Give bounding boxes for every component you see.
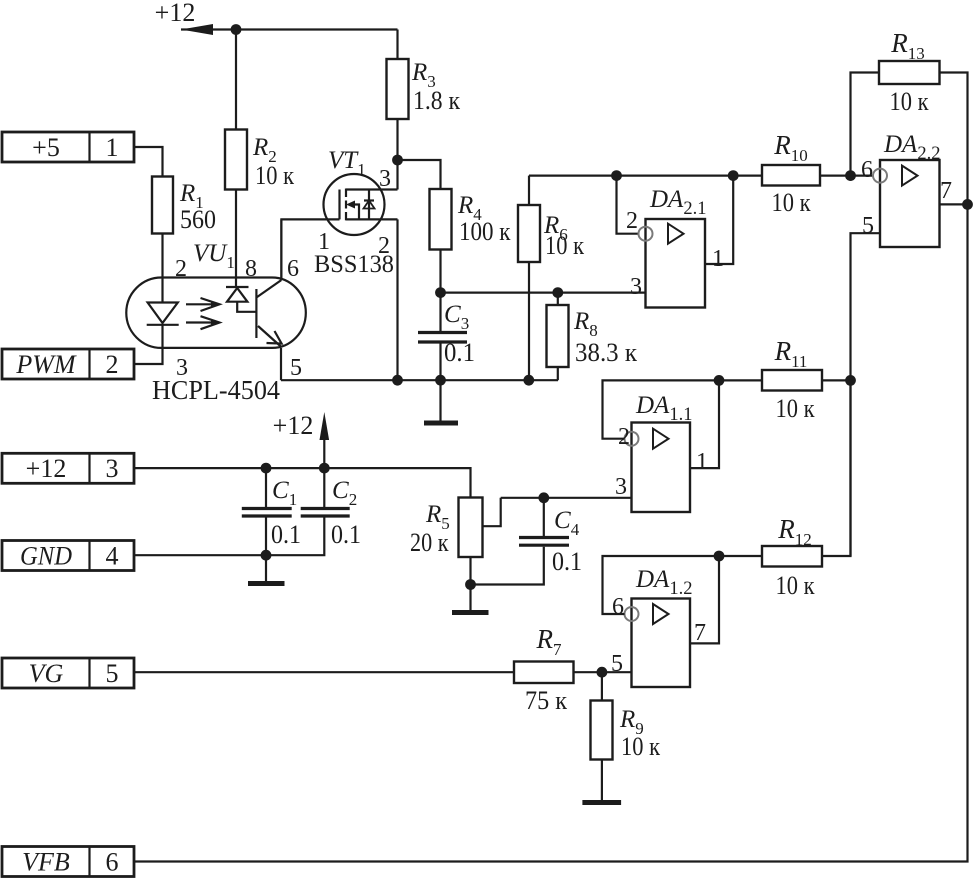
power +12 top arrow: [155, 0, 398, 35]
wire R4 to node: [439, 250, 441, 293]
capacitor C2: [266, 468, 361, 555]
svg-text:75 к: 75 к: [525, 686, 567, 715]
svg-text:2: 2: [626, 208, 638, 234]
svg-text:VG: VG: [29, 659, 64, 688]
node DA1.2 loop/R12: [714, 551, 725, 562]
resistor R2: [225, 130, 247, 190]
ground symbol under C3: [424, 380, 458, 423]
ground rail under C3: [281, 379, 558, 381]
wire R1 to opto pin 2: [161, 234, 163, 278]
svg-text:20 к: 20 к: [410, 528, 449, 557]
resistor R11: [762, 336, 851, 423]
op-amp DA2.2: [861, 131, 952, 247]
connector box +5 / 1: [2, 132, 134, 162]
light arrow 2: [186, 316, 220, 329]
svg-text:6: 6: [287, 256, 299, 282]
svg-text:6: 6: [106, 848, 119, 877]
svg-text:3: 3: [615, 474, 627, 500]
svg-text:38.3 к: 38.3 к: [575, 338, 637, 367]
wire DA2.2 pin7 to right bus: [940, 203, 968, 205]
svg-text:10 к: 10 к: [890, 87, 929, 116]
resistor R5 with tap: [410, 498, 501, 585]
node R4/C3/pin3: [435, 287, 446, 298]
op-amp DA2.1: [626, 186, 724, 308]
svg-text:1: 1: [696, 449, 708, 475]
svg-text:560: 560: [180, 205, 216, 234]
DA1.2 pin5 wire: [574, 671, 632, 673]
connector box GND / 4: [2, 541, 134, 571]
wire PWM box to opto pin 3: [134, 348, 163, 364]
svg-text:10 к: 10 к: [772, 188, 811, 217]
wire R2 to opto pin 8: [235, 190, 237, 278]
wire R6 top to DA2.1 input rail: [529, 175, 762, 177]
node R5/C4 gnd: [465, 579, 476, 590]
connector box +12 / 3: [2, 453, 134, 483]
resistor R12: [719, 380, 851, 600]
svg-text:5: 5: [290, 355, 302, 381]
resistor R13 feedback: [851, 28, 968, 204]
wire +12 down to R3: [396, 30, 398, 60]
resistor R7: [134, 624, 574, 715]
svg-text:4: 4: [106, 542, 119, 571]
svg-text:GND: GND: [20, 542, 72, 571]
light arrow 1: [186, 298, 220, 311]
resistor R1: [152, 177, 173, 234]
svg-text:1: 1: [712, 246, 724, 272]
capacitor C3: [418, 293, 475, 381]
optocoupler VU1 HCPL-4504: [126, 240, 306, 405]
wire R3 to node: [396, 119, 398, 190]
op-amp DA1.2: [611, 566, 706, 687]
svg-text:+12: +12: [273, 411, 314, 440]
svg-text:+5: +5: [32, 133, 60, 162]
connector box VG / 5: [2, 658, 134, 688]
svg-text:2: 2: [175, 256, 187, 282]
svg-text:3: 3: [106, 454, 119, 483]
svg-text:5: 5: [106, 659, 119, 688]
resistor R4: [430, 189, 452, 250]
svg-text:100 к: 100 к: [459, 217, 511, 246]
ground symbol under C1: [248, 555, 285, 583]
svg-text:10 к: 10 к: [621, 732, 660, 761]
wire +5 box to R1: [134, 147, 163, 177]
svg-text:8: 8: [245, 256, 257, 282]
node R11 right: [845, 375, 856, 386]
svg-text:3: 3: [379, 166, 391, 192]
svg-text:0.1: 0.1: [331, 520, 361, 549]
node R10/R13/pin6: [845, 170, 856, 181]
wire node to R4: [398, 160, 441, 189]
node R3/VT1 drain/R4: [392, 155, 403, 166]
wire +12 to R2: [235, 30, 237, 130]
svg-text:VFB: VFB: [22, 848, 70, 877]
svg-text:10 к: 10 к: [255, 161, 294, 190]
DA1.2 pin6 loop: [603, 556, 720, 614]
node R7/R9: [597, 667, 608, 678]
capacitor C4: [471, 498, 583, 585]
resistor R10: [762, 130, 873, 217]
node junction +12/R2: [231, 24, 242, 35]
svg-text:PWM: PWM: [15, 350, 77, 379]
capacitor C1: [242, 468, 301, 555]
wire DA2.2 pin5 down to R11 node: [851, 233, 881, 556]
wire node to DA2.1 pin3: [441, 292, 646, 294]
svg-text:1.8 к: 1.8 к: [413, 86, 460, 115]
node C4 top: [538, 492, 549, 503]
GND rail wire: [134, 554, 266, 556]
svg-text:+12: +12: [26, 454, 67, 483]
+12 rail wire: [134, 468, 471, 497]
svg-text:2: 2: [618, 424, 630, 450]
ground symbol under R5: [452, 585, 489, 613]
connector box VFB / 6: [2, 847, 134, 877]
op-amp DA1.1: [615, 392, 708, 512]
svg-text:0.1: 0.1: [552, 547, 582, 576]
DA1.1 pin2 feedback loop: [603, 380, 763, 438]
resistor R9: [582, 672, 660, 802]
resistor R3: [387, 59, 409, 119]
svg-text:7: 7: [694, 620, 706, 646]
svg-text:10 к: 10 к: [776, 571, 815, 600]
LED inside VU1: [147, 278, 179, 349]
svg-text:0.1: 0.1: [444, 338, 475, 367]
wire to DA2.1 pin 2: [617, 176, 639, 234]
resistor R8: [547, 293, 638, 381]
svg-text:0.1: 0.1: [271, 520, 301, 549]
node DA1.1 loop/R11: [714, 375, 725, 386]
svg-text:HCPL-4504: HCPL-4504: [152, 375, 280, 405]
svg-text:7: 7: [940, 178, 952, 204]
phototransistor inside VU1: [256, 219, 281, 380]
svg-text:2: 2: [106, 350, 119, 379]
node R8 top: [552, 287, 563, 298]
svg-text:6: 6: [612, 594, 624, 620]
wire DA1.1 pin3: [501, 497, 632, 499]
svg-text:10 к: 10 к: [545, 231, 584, 260]
svg-text:3: 3: [630, 274, 642, 300]
svg-text:10 к: 10 к: [776, 394, 815, 423]
transistor VT1 BSS138: [281, 147, 397, 380]
wire DA2.1 pin1 up to rail: [705, 176, 733, 264]
svg-text:6: 6: [861, 157, 873, 183]
photodiode inside VU1: [226, 278, 256, 312]
DA1.2 pin7 up to node: [690, 556, 719, 643]
+12 up arrow: [273, 411, 329, 468]
svg-text:5: 5: [862, 213, 874, 239]
right bus down to VFB: [135, 204, 968, 861]
svg-text:+12: +12: [155, 0, 196, 27]
svg-text:BSS138: BSS138: [314, 251, 394, 278]
wire DA1.1 pin1 up: [690, 380, 719, 468]
svg-text:1: 1: [106, 133, 119, 162]
connector box PWM / 2: [2, 349, 134, 379]
resistor R6: [518, 176, 584, 381]
